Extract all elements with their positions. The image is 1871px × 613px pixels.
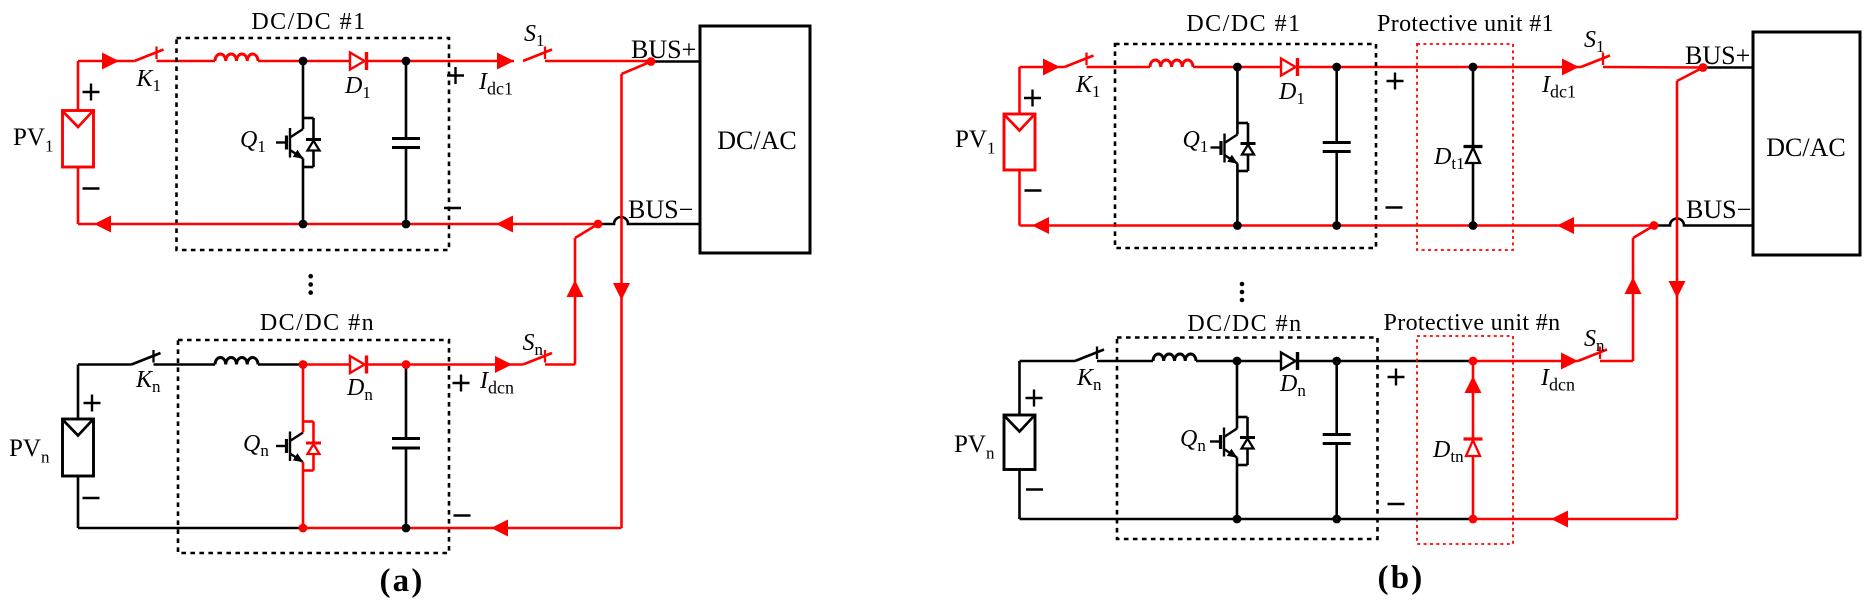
label Idcn (b) (1540, 365, 1575, 395)
switch Sn (b) (1578, 347, 1607, 362)
capacitor C1 (b) (1323, 67, 1351, 226)
svg-text:DC/AC: DC/AC (717, 126, 796, 155)
node BUS- junction (b) (1650, 221, 1659, 230)
node junction capacitor Cn top (402, 360, 411, 369)
wire capacitor node to switch S1 (406, 60, 514, 63)
node junction Dtn bottom (1469, 515, 1478, 524)
protective diode Dtn (red fault path) (1464, 361, 1483, 519)
wire bottom rail red fault part (bn) (1473, 518, 1677, 521)
label Dn (346, 375, 373, 404)
svg-text:DC/DC #n: DC/DC #n (260, 310, 375, 336)
current arrow left on bottom rail near PV1 (94, 216, 111, 233)
label Dtn (1432, 437, 1464, 466)
wire fault return up to BUS- (b) (1633, 226, 1654, 362)
minus terminal label of PVn (83, 497, 100, 499)
svg-text:DC/DC #1: DC/DC #1 (1186, 11, 1301, 37)
switch Sn (523, 350, 552, 365)
wire inductor to diode D1 (258, 60, 350, 63)
wire fault path down from BUS+ (b) (1677, 68, 1703, 520)
label D1 (b) (1278, 79, 1305, 108)
wire D1 to capacitor node (b1) (1298, 66, 1337, 69)
wire Sn to fault return riser (b) (1600, 360, 1633, 363)
caption (a) (379, 563, 424, 599)
label Q1 (240, 127, 266, 156)
wire PVn bottom rail black part (78, 476, 303, 528)
node junction Q1 emitter / bottom rail (b1) (1233, 221, 1242, 230)
label Qn (243, 431, 269, 460)
label BUS+ (a) (631, 35, 696, 64)
label Protective unit #n (1384, 310, 1561, 336)
wire bottom rail BUS- (a1) (78, 167, 598, 224)
node junction capacitor Cn bottom (b) (1332, 515, 1341, 524)
svg-text:DC/DC #n: DC/DC #n (1187, 311, 1302, 337)
label PV1 (b) (955, 126, 995, 158)
plus output label (bn) (1388, 369, 1405, 386)
wire node to diode Dn (303, 363, 350, 366)
current arrow right before S1 (b) (1562, 59, 1579, 76)
converter box DC/DC #1 (dashed) (177, 38, 450, 250)
label PVn (9, 435, 50, 467)
PV panel PVn (diagram a) (63, 419, 94, 476)
label PVn (b) (954, 431, 995, 463)
current arrow up on fault return wire (b) (1625, 277, 1642, 294)
plus terminal label of PV1 (b) (1024, 90, 1041, 107)
wire Dtn node to switch Sn (b) (1473, 360, 1578, 363)
node junction capacitor Cn bottom (402, 524, 411, 533)
node junction Dt1 top (1469, 63, 1478, 72)
node junction Qn collector / top rail (an) (299, 360, 308, 369)
transistor Q1 IGBT with antiparallel diode (276, 118, 321, 167)
wire capacitor node to protective unit (bn) (1337, 360, 1473, 363)
plus output label (b1) (1387, 73, 1404, 90)
current arrow left on bottom rail (bn) (1551, 511, 1568, 528)
current arrow left on bottom rail near BUS- (496, 216, 513, 233)
node junction Qn emitter / bottom rail (bn) (1233, 515, 1242, 524)
wire inductor to diode D1 (b) (1193, 66, 1281, 69)
svg-text:Protective unit #1: Protective unit #1 (1377, 11, 1554, 37)
wire BUS+ to DC/AC (b) (1703, 66, 1753, 69)
switch K1 (b) (1065, 53, 1094, 68)
PV panel PV1 (diagram a) (63, 111, 94, 168)
capacitor Cn (b) (1323, 361, 1351, 519)
plus terminal label of PVn (b) (1026, 390, 1043, 407)
label Sn (b) (1584, 326, 1605, 355)
wire Q1 collector from top rail and emitter to bottom rail (302, 61, 305, 224)
wire S1 to BUS+ node (b) (1603, 66, 1703, 69)
inductor Ln (215, 358, 258, 365)
minus output label (b1) (1386, 206, 1403, 208)
node junction Q1 collector / top rail (b1) (1233, 63, 1242, 72)
svg-text:BUS+: BUS+ (1685, 41, 1750, 70)
node junction capacitor C1 top (b) (1332, 63, 1341, 72)
inductor L1 (215, 54, 258, 61)
switch K1 (135, 47, 164, 62)
switch S1 (b) (1581, 53, 1610, 68)
label Dt1 (1433, 144, 1465, 173)
transistor Qn IGBT with antiparallel diode (fault path red) (276, 422, 321, 471)
wire PV1 top to switch K1 (78, 61, 135, 111)
transistor Q1 IGBT with antiparallel diode (b) (1211, 123, 1256, 171)
current arrow down on fault wire (b) (1669, 281, 1686, 298)
label D1 (344, 73, 371, 102)
svg-text:(a): (a) (379, 563, 424, 599)
inverter block DC/AC (a) (700, 26, 810, 253)
label DC/AC (a) (717, 126, 796, 155)
node junction capacitor C1 bottom (b) (1332, 221, 1341, 230)
label PV1 (13, 124, 53, 156)
protective unit #n box (red dashed) (1417, 336, 1513, 544)
switch Kn (132, 350, 161, 365)
minus terminal label of PV1 (83, 187, 100, 189)
current arrow left on bottom rail near BUS- (b) (1557, 217, 1574, 234)
label Q1 (b) (1183, 127, 1209, 156)
svg-text:BUS+: BUS+ (631, 35, 696, 64)
wire bottom rail red fault part (an) (303, 527, 622, 530)
label K1 (b) (1075, 72, 1101, 101)
current arrow up on fault return wire (a) (567, 280, 584, 297)
protective unit #1 box (red dashed) (1417, 44, 1513, 250)
label DC/DC #n (b) (1187, 311, 1302, 337)
diode Dn (350, 356, 367, 374)
label DC/AC (b) (1766, 133, 1845, 162)
current arrow down on fault wire (a) (613, 283, 630, 300)
node junction Q1 collector / top rail (a1) (299, 57, 308, 66)
current arrow right before Sn (495, 356, 512, 373)
svg-text:Protective unit #n: Protective unit #n (1384, 310, 1561, 336)
wire Qn vertical fault branch (302, 365, 305, 529)
wire PVn bottom rail black part (b) (1020, 470, 1474, 520)
current arrow up on Dtn branch (1465, 376, 1482, 393)
wire PVn top to switch Kn (78, 365, 132, 420)
wire Dn to capacitor node (bn) (1298, 360, 1337, 363)
switch Kn (b) (1075, 347, 1104, 362)
minus terminal label of PV1 (b) (1025, 189, 1042, 191)
label K1 (136, 66, 162, 95)
label S1 (524, 21, 545, 50)
PV panel PVn (diagram b) (1004, 415, 1035, 470)
current arrow right before Sn (b) (1561, 353, 1578, 370)
protective diode Dt1 (1464, 67, 1483, 226)
minus terminal label of PVn (b) (1026, 488, 1043, 490)
label BUS+ (b) (1685, 41, 1750, 70)
current arrow right on PV1 top wire (102, 53, 119, 70)
current arrow right on PV1 top wire (b) (1043, 59, 1060, 76)
wire inductor to node (an) (258, 363, 303, 366)
inductor L1 (b) (1150, 60, 1193, 67)
transistor Qn IGBT with antiparallel diode (b) (1210, 417, 1255, 465)
plus output label (an) (453, 375, 470, 392)
svg-text:BUS−: BUS− (1686, 195, 1751, 224)
current arrow left on bottom rail near PV1 (b) (1032, 217, 1049, 234)
wire PVn top to switch Kn (b) (1020, 361, 1076, 415)
svg-text:BUS−: BUS− (628, 195, 693, 224)
node BUS+ junction (a) (647, 57, 656, 66)
PV panel PV1 (diagram b) (1004, 114, 1035, 170)
wire Dn to capacitor node (an) (367, 363, 407, 366)
inductor Ln (b) (1153, 354, 1196, 361)
current arrow left on bottom rail (an) (491, 520, 508, 537)
node junction capacitor Cn top (b) (1332, 357, 1341, 366)
wire K1 to inductor L1 (157, 60, 216, 63)
label Idc1 (b) (1541, 72, 1576, 102)
switch S1 (523, 47, 552, 62)
wire Q1 collector and emitter segments (b) (1236, 67, 1239, 226)
label DC/DC #n (260, 310, 375, 336)
wire inductor to diode Dn (b) (1196, 360, 1281, 363)
capacitor C1 (392, 61, 420, 224)
label Idcn (479, 368, 514, 398)
capacitor Cn (392, 365, 420, 529)
wire fault path down from BUS+ (a) (622, 62, 652, 529)
label Qn (b) (1180, 426, 1206, 455)
node junction Q1 emitter / bottom rail (a1) (299, 220, 308, 229)
converter box DC/DC #1 (dashed) (b) (1115, 44, 1376, 248)
diode Dn (b) (1281, 352, 1298, 370)
diode D1 (350, 52, 367, 70)
minus output label (a1) (444, 207, 461, 209)
label Dn (b) (1279, 371, 1306, 400)
wire capacitor node to switch Sn (406, 363, 523, 366)
plus terminal label of PVn (84, 395, 101, 412)
label Idc1 (478, 69, 513, 99)
label S1 (b) (1584, 27, 1605, 56)
wire Kn to inductor Ln (154, 363, 216, 366)
label DC/DC #1 (b) (1186, 11, 1301, 37)
ellipsis between converters (a) (308, 274, 313, 295)
wire PV1 top to switch K1 (b) (1020, 67, 1065, 114)
wire BUS+ to DC/AC (651, 60, 700, 63)
node junction Dtn top (1469, 357, 1478, 366)
wire D1 to capacitor node (367, 60, 407, 63)
node junction capacitor C1 top (402, 57, 411, 66)
current arrow right before S1 (497, 53, 514, 70)
wire fault return up to BUS- (a) (575, 224, 598, 365)
node junction Dt1 bottom (1469, 221, 1478, 230)
plus terminal label of PV1 (83, 84, 100, 101)
caption (b) (1378, 560, 1425, 596)
plus output label (a1) (447, 67, 464, 84)
wire BUS- to DC/AC with crossover hop (b) (1654, 219, 1753, 226)
diode D1 (b) (1281, 58, 1298, 76)
minus output label (an) (454, 514, 471, 516)
label Sn (523, 330, 544, 359)
label DC/DC #1 (251, 9, 366, 35)
converter box DC/DC #n (dashed) (b) (1117, 338, 1378, 540)
wire capacitor node through protective unit to S1 (b) (1337, 66, 1581, 69)
wire bottom rail BUS- (b1) (1020, 170, 1655, 226)
svg-text:DC/AC: DC/AC (1766, 133, 1845, 162)
ellipsis between converters (b) (1240, 282, 1245, 303)
svg-text:(b): (b) (1378, 560, 1425, 596)
svg-text:DC/DC #1: DC/DC #1 (251, 9, 366, 35)
inverter block DC/AC (b) (1753, 32, 1860, 255)
node BUS+ junction (b) (1699, 63, 1708, 72)
wire K1 to inductor L1 (b) (1087, 66, 1151, 69)
label BUS- (b) (1686, 195, 1751, 224)
wire Sn to fault return riser (545, 363, 575, 366)
converter box DC/DC #n (dashed) (178, 340, 449, 553)
node junction Qn collector / top rail (bn) (1233, 357, 1242, 366)
label Protective unit #1 (1377, 11, 1554, 37)
node junction Qn emitter / bottom rail (an) (299, 524, 308, 533)
node junction capacitor C1 bottom (402, 220, 411, 229)
wire BUS- to DC/AC with crossover hop (598, 217, 700, 224)
node BUS- junction (a) (594, 220, 603, 229)
minus output label (bn) (1388, 503, 1405, 505)
wire Qn collector and emitter segments (b) (1236, 361, 1239, 519)
wire Kn to inductor Ln (b) (1097, 360, 1153, 363)
label Kn (135, 367, 161, 396)
label BUS- (a) (628, 195, 693, 224)
label Kn (b) (1076, 365, 1102, 394)
wire S1 to BUS+ node (545, 60, 651, 63)
